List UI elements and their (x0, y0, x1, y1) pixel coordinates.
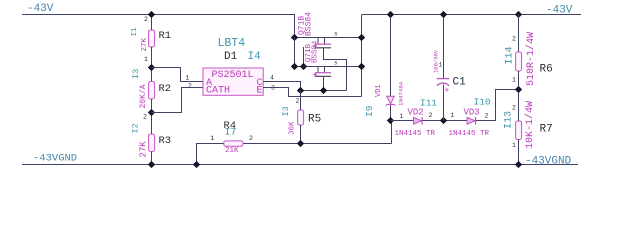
op-amp U1 optocoupler PS2501L box (203, 68, 263, 95)
resistor R4 body (224, 141, 243, 146)
svg-text:VD2: VD2 (408, 108, 424, 118)
svg-text:CATH: CATH (206, 86, 230, 97)
node junction zener column on top rail (387, 11, 394, 18)
svg-text:2: 2 (296, 98, 300, 105)
wire R6 top lead (518, 15, 520, 53)
wire from opto pin CATH to node (152, 88, 204, 113)
svg-text:1N4145 TR: 1N4145 TR (395, 130, 436, 138)
wire diode line (391, 90, 519, 121)
svg-text:R3: R3 (159, 135, 172, 147)
wire R7 bottom to GND rail (518, 140, 520, 165)
wire MOSFET mid rail B (295, 66, 362, 68)
wire R2 bottom to node (151, 99, 153, 134)
resistor R7 (516, 121, 522, 140)
wire upper FET gate lead jog (324, 48, 347, 90)
svg-text:2: 2 (143, 114, 147, 121)
node junction R1/R2/opto-A (148, 64, 155, 71)
wire R5 bottom lead (300, 125, 302, 144)
svg-text:R2: R2 (159, 83, 172, 95)
node junction R3 on GND rail (148, 161, 155, 168)
svg-text:I9: I9 (364, 105, 375, 117)
wire stub drain upper FET (303, 47, 305, 67)
svg-text:PS2501L: PS2501L (212, 70, 254, 81)
svg-text:2: 2 (188, 83, 192, 90)
wire R1 top lead from rail (151, 15, 153, 31)
svg-text:2: 2 (485, 113, 489, 120)
svg-text:1: 1 (144, 56, 148, 63)
wire zener bottom to diode line (390, 105, 392, 121)
svg-text:2: 2 (512, 105, 516, 112)
wire top-right -43V rail (362, 14, 581, 16)
wire from opto pin C right and down (263, 82, 300, 91)
svg-text:I3: I3 (131, 69, 141, 79)
wire riser from R4/R5 run up to diode line (391, 121, 393, 144)
svg-text:I4: I4 (248, 51, 262, 63)
diode VD2 1N4145 (414, 117, 423, 124)
transistor Q1 upper P-MOSFET (313, 38, 332, 48)
svg-text:36K: 36K (289, 121, 297, 135)
svg-text:I7: I7 (225, 128, 237, 139)
svg-text:+: + (445, 87, 450, 96)
resistor R3 (149, 134, 155, 152)
svg-text:VD3: VD3 (464, 108, 480, 118)
wire zener column from top rail (390, 15, 392, 97)
svg-text:R6: R6 (540, 64, 553, 76)
svg-text:4: 4 (270, 75, 274, 82)
svg-text:-43VGND: -43VGND (33, 153, 77, 165)
resistor R6 (516, 52, 522, 71)
svg-text:E: E (257, 86, 263, 97)
node junction rail-B left (291, 63, 298, 70)
node junction R2/R3/opto-CATH (148, 109, 155, 116)
wire C1 bottom to diode line (443, 85, 445, 121)
svg-text:510R-1/4W: 510R-1/4W (525, 32, 537, 86)
node junction C1 on top rail (440, 11, 447, 18)
svg-text:2: 2 (144, 16, 148, 23)
node junction R7 on GND rail (515, 161, 522, 168)
svg-text:10K-1/4W: 10K-1/4W (524, 101, 536, 149)
node junction lower gate on drive run (320, 87, 327, 94)
wire MOSFET source rail A (295, 37, 362, 39)
resistor R4 leads and run to R5/zener (197, 144, 392, 165)
svg-text:R1: R1 (159, 30, 172, 42)
node junction R5 bottom (297, 140, 304, 147)
transistor Q2 lower P-MOSFET (313, 66, 332, 76)
wire from opto pin E right along y96 (263, 88, 361, 97)
wire C1 column from top rail (443, 15, 445, 79)
wire bottom -43VGND rail (22, 164, 578, 166)
svg-text:s: s (334, 60, 338, 67)
resistor R5 (298, 110, 304, 125)
wire from node to opto pin A (152, 68, 204, 82)
svg-text:VD1: VD1 (375, 84, 383, 97)
svg-text:1N4145 TR: 1N4145 TR (449, 130, 490, 138)
svg-text:BSS84: BSS84 (312, 40, 320, 63)
svg-text:I14: I14 (505, 46, 516, 64)
node junction rail-A left (291, 34, 298, 41)
svg-text:-43V: -43V (27, 3, 54, 15)
svg-text:20K/A: 20K/A (139, 84, 148, 108)
wire gate-drive run y90 (301, 90, 347, 92)
svg-text:I3: I3 (281, 106, 291, 116)
diode VD3 1N4145 (467, 117, 476, 124)
node junction R1 top on rail (148, 11, 155, 18)
wire R1 bottom to node (151, 47, 153, 82)
node junction C1 on diode line (440, 117, 447, 124)
svg-text:BSS84: BSS84 (305, 12, 314, 36)
svg-text:1: 1 (512, 142, 516, 149)
wire R5 top lead (300, 91, 302, 111)
node junction rail-B right (358, 63, 365, 70)
wire R6 bottom to mid node (518, 71, 520, 121)
svg-text:2: 2 (249, 135, 253, 142)
svg-text:27K: 27K (139, 141, 149, 158)
diode VD1 zener 1N4748A (386, 96, 396, 105)
capacitor C1 (437, 79, 450, 96)
svg-text:s: s (334, 31, 338, 38)
wire lower FET gate lead down to drive run (323, 77, 325, 91)
svg-text:1N4748A: 1N4748A (398, 81, 405, 106)
svg-text:C1: C1 (453, 77, 467, 89)
svg-text:1: 1 (512, 77, 516, 84)
svg-text:27K: 27K (141, 37, 149, 51)
node junction stub on rail B (300, 63, 307, 70)
svg-text:1: 1 (211, 135, 215, 142)
svg-text:-43VGND: -43VGND (525, 156, 572, 168)
node junction diode line left (387, 117, 394, 124)
node junction R6/R7/diode-line (515, 86, 522, 93)
wire R3 bottom to GND rail (151, 152, 153, 165)
node junction R6 column on top rail (515, 11, 522, 18)
node junction opto-C drive (297, 87, 304, 94)
svg-text:R5: R5 (308, 114, 321, 126)
svg-text:I1: I1 (131, 27, 139, 37)
svg-text:LBT4: LBT4 (218, 37, 246, 50)
svg-text:2: 2 (429, 112, 433, 119)
svg-text:I11: I11 (420, 98, 437, 109)
svg-text:I2: I2 (131, 123, 141, 133)
node junction rail-A right (358, 34, 365, 41)
wire left column continues to rail B (294, 38, 296, 67)
resistor R1 (149, 30, 155, 47)
wire top-left -43V rail (22, 14, 295, 16)
svg-text:R7: R7 (540, 124, 553, 136)
svg-text:1: 1 (439, 62, 443, 69)
svg-text:I10: I10 (474, 97, 491, 108)
svg-text:1: 1 (400, 113, 404, 120)
node junction R4 left on GND rail (193, 161, 200, 168)
svg-text:2: 2 (512, 36, 516, 43)
svg-text:I13: I13 (504, 111, 515, 129)
svg-text:D1: D1 (224, 51, 238, 63)
resistor R2 (149, 82, 155, 100)
wire corner from -43V rail down to MOSFET source rail (294, 15, 296, 38)
wire corner from right -43V rail down column x362 (361, 15, 363, 97)
svg-text:1: 1 (186, 75, 190, 82)
svg-text:21K: 21K (225, 147, 239, 155)
svg-text:1: 1 (451, 112, 455, 119)
